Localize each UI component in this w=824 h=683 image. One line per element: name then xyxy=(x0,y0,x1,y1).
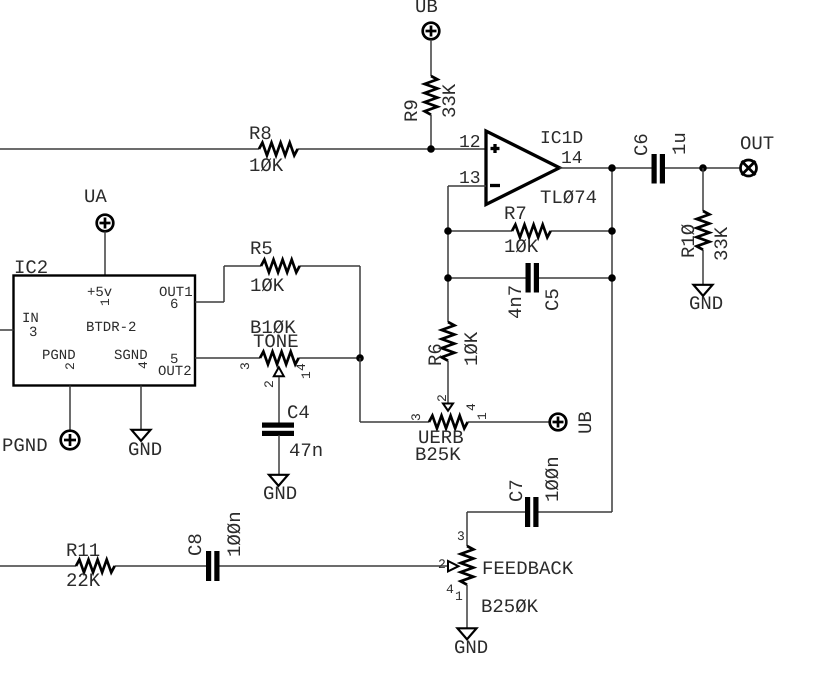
resistor R7 xyxy=(504,203,551,258)
svg-text:C4: C4 xyxy=(287,402,310,424)
capacitor C5 xyxy=(505,263,564,319)
resistor R8 xyxy=(249,123,298,177)
svg-text:2: 2 xyxy=(435,394,450,402)
svg-text:1: 1 xyxy=(455,589,463,604)
wire FEEDBACK to ground xyxy=(466,585,468,628)
svg-text:33K: 33K xyxy=(439,83,461,118)
node TONE right junction xyxy=(356,354,364,362)
capacitor C8 xyxy=(185,511,246,581)
svg-text:4: 4 xyxy=(294,363,309,371)
wire bottom net y=566 xyxy=(0,565,448,567)
wire C7 row xyxy=(467,512,612,546)
capacitor C4 xyxy=(262,402,323,462)
ground GND (SGND) xyxy=(128,430,162,461)
svg-text:1ØK: 1ØK xyxy=(504,236,539,258)
svg-text:3: 3 xyxy=(238,362,253,370)
node C5 right xyxy=(608,274,616,282)
svg-text:1: 1 xyxy=(299,371,314,379)
svg-text:4n7: 4n7 xyxy=(505,285,527,319)
svg-text:2: 2 xyxy=(63,362,78,370)
power VA xyxy=(84,186,113,231)
svg-text:R11: R11 xyxy=(66,540,100,562)
resistor R5 xyxy=(250,238,300,297)
resistor R6 xyxy=(425,322,483,366)
node R7 left xyxy=(444,227,452,235)
svg-text:33K: 33K xyxy=(711,226,733,261)
svg-text:1ØØn: 1ØØn xyxy=(542,456,564,502)
potentiometer FEEDBACK B250K xyxy=(438,529,574,618)
svg-text:B25ØK: B25ØK xyxy=(481,596,539,618)
svg-text:GND: GND xyxy=(454,637,488,659)
svg-text:OUT2: OUT2 xyxy=(158,364,192,380)
wire C5 row xyxy=(448,277,612,279)
svg-text:3: 3 xyxy=(409,413,424,421)
wire main input net y=149 xyxy=(0,148,486,150)
svg-text:4: 4 xyxy=(136,361,151,369)
wire R7 row xyxy=(448,230,612,232)
svg-text:UB: UB xyxy=(575,411,597,434)
svg-text:12: 12 xyxy=(459,133,481,153)
IC2 BTDR-2 box xyxy=(14,257,196,386)
svg-text:PGND: PGND xyxy=(2,435,48,457)
svg-text:C8: C8 xyxy=(185,533,207,556)
svg-text:6: 6 xyxy=(170,297,178,313)
resistor R9 xyxy=(401,76,461,122)
svg-text:R8: R8 xyxy=(249,123,272,145)
wire op-amp output net y=168 xyxy=(560,168,741,512)
svg-text:1ØK: 1ØK xyxy=(249,155,284,177)
svg-text:B25K: B25K xyxy=(415,444,461,466)
wire R9 to node xyxy=(430,115,432,149)
svg-text:4: 4 xyxy=(446,582,454,597)
svg-text:4: 4 xyxy=(464,403,479,411)
wire pin13 net xyxy=(448,186,486,322)
svg-text:3: 3 xyxy=(457,529,465,544)
svg-text:2: 2 xyxy=(438,557,446,572)
power VB (mid) xyxy=(550,411,597,434)
wire OUT1 to R5 xyxy=(195,266,360,358)
svg-text:3: 3 xyxy=(29,325,37,341)
wire SGND pin xyxy=(140,386,142,430)
ground GND (C4) xyxy=(263,475,297,505)
svg-text:UB: UB xyxy=(415,0,438,18)
svg-text:47n: 47n xyxy=(289,440,323,462)
wire R10 xyxy=(702,168,704,285)
resistor R10 xyxy=(678,211,733,261)
wire IN pin xyxy=(0,329,14,331)
svg-text:C7: C7 xyxy=(506,479,528,502)
svg-text:R7: R7 xyxy=(504,203,527,225)
svg-text:2: 2 xyxy=(262,380,277,388)
svg-text:GND: GND xyxy=(689,293,723,315)
wire VA to box xyxy=(104,232,106,276)
svg-text:1u: 1u xyxy=(669,132,691,155)
svg-text:R5: R5 xyxy=(250,238,273,260)
wire TONE wiper to C4 xyxy=(278,377,280,423)
wire PGND pin xyxy=(69,386,71,431)
svg-text:UA: UA xyxy=(84,186,107,208)
node junction R9/main xyxy=(427,145,435,153)
svg-text:C5: C5 xyxy=(542,288,564,311)
svg-text:TLØ74: TLØ74 xyxy=(540,187,597,209)
svg-text:22K: 22K xyxy=(66,570,101,592)
ground GND (FEEDBACK) xyxy=(454,628,488,659)
svg-text:1ØØn: 1ØØn xyxy=(224,511,246,557)
resistor R11 xyxy=(66,540,115,592)
node C5 left xyxy=(444,274,452,282)
svg-text:R1Ø: R1Ø xyxy=(678,224,700,258)
svg-text:BTDR-2: BTDR-2 xyxy=(86,320,136,336)
ground GND (R10) xyxy=(689,285,723,315)
svg-text:PGND: PGND xyxy=(42,348,76,364)
op-amp U1 IC1D triangle xyxy=(459,129,597,209)
svg-text:1: 1 xyxy=(475,412,490,420)
potentiometer TONE B10K xyxy=(238,317,314,388)
svg-text:1: 1 xyxy=(98,298,113,306)
node R7 right xyxy=(608,227,616,235)
node output junction xyxy=(608,164,616,172)
svg-text:OUT: OUT xyxy=(740,133,774,155)
svg-text:R6: R6 xyxy=(425,343,447,366)
wire VB to R9 xyxy=(430,40,432,77)
node R10 junction xyxy=(699,164,707,172)
svg-text:FEEDBACK: FEEDBACK xyxy=(482,558,574,580)
svg-text:TONE: TONE xyxy=(253,331,299,353)
wire TONE node to VERB pin3 xyxy=(360,358,429,422)
capacitor C6 xyxy=(631,132,691,183)
power VB (top) xyxy=(415,0,439,39)
svg-text:14: 14 xyxy=(561,149,583,169)
svg-text:1ØK: 1ØK xyxy=(461,331,483,366)
svg-text:GND: GND xyxy=(128,439,162,461)
svg-text:IC1D: IC1D xyxy=(540,129,583,149)
terminal PGND xyxy=(2,431,79,457)
capacitor C7 xyxy=(506,456,564,527)
potentiometer VERB B25K xyxy=(409,394,490,466)
wire OUT2 to TONE xyxy=(195,357,360,359)
svg-text:GND: GND xyxy=(263,483,297,505)
terminal OUT xyxy=(740,133,774,176)
svg-text:R9: R9 xyxy=(401,99,423,122)
wire R6 to VERB wiper xyxy=(447,361,449,404)
svg-text:1ØK: 1ØK xyxy=(250,275,285,297)
svg-text:C6: C6 xyxy=(631,133,653,156)
wire C4 to ground xyxy=(278,435,280,475)
wire VERB pin1 to VB xyxy=(468,421,550,423)
